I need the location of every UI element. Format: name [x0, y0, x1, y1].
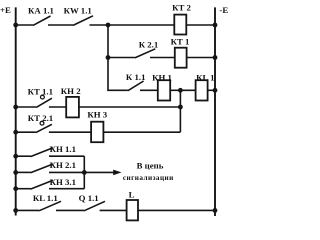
junction dot row6 left rail: [13, 154, 18, 159]
left rail +E: [15, 7, 17, 215]
wire row6 to signal bus: [49, 155, 84, 157]
wire row1 KT2 coil to right rail: [186, 24, 215, 26]
wire right bus vertical: [179, 90, 181, 132]
svg-text:К 1.1: К 1.1: [126, 72, 146, 82]
svg-text:КТ 1: КТ 1: [171, 36, 190, 46]
svg-text:КН 3.1: КН 3.1: [50, 177, 76, 187]
svg-text:КТ 1.1: КТ 1.1: [28, 86, 53, 96]
wire row6 rail to KN1.1: [16, 155, 31, 157]
svg-text:КН 1.1: КН 1.1: [50, 144, 76, 154]
junction dot row1 left rail: [13, 23, 18, 28]
wire row3 KL1 to right rail: [208, 89, 215, 91]
junction dot row2 bus: [106, 55, 111, 60]
svg-text:сигнализации: сигнализации: [123, 174, 174, 182]
svg-text:КН 3: КН 3: [87, 109, 107, 119]
wire row7 rail to KN2.1: [16, 171, 31, 173]
contact KN2.1 blade: [31, 164, 54, 173]
signal arrow head: [113, 170, 121, 176]
junction dot row7 left rail: [13, 170, 18, 175]
wire row9 rail to KL1.1: [16, 209, 39, 211]
junction dot signal bus: [82, 170, 87, 175]
svg-text:К 2.1: К 2.1: [139, 40, 159, 50]
wire row5 to KN3 box: [49, 131, 91, 133]
junction dot row1 right rail: [213, 23, 218, 28]
wire row5 rail to KT2.1: [16, 131, 36, 133]
right rail -E: [214, 7, 216, 216]
relay coil KT2: [174, 15, 186, 35]
wire row4 to KN2 box: [49, 106, 66, 108]
junction dot row9 right rail: [213, 208, 218, 213]
wire row9 between KL1.1 and Q1.1: [56, 209, 84, 211]
relay coil KT1: [175, 48, 187, 68]
svg-text:КН 2.1: КН 2.1: [50, 160, 76, 170]
wire row4 rail to KT1.1: [16, 106, 37, 108]
wire row2 to KT1 coil: [150, 57, 175, 59]
relay coil KN3: [91, 122, 103, 143]
wire row7 to signal bus: [49, 171, 84, 173]
contact KN1.1 blade: [31, 148, 54, 157]
wire signal bus vertical: [83, 156, 85, 189]
contact KT2.1 blade: [36, 124, 52, 132]
contact KN3.1 blade: [31, 180, 54, 189]
svg-text:КН 1: КН 1: [152, 72, 172, 82]
lamp L: [127, 200, 138, 220]
svg-text:КL 1: КL 1: [196, 72, 214, 82]
svg-text:-Е: -Е: [219, 5, 228, 15]
svg-text:КТ 2: КТ 2: [172, 2, 191, 12]
junction dot row5 left rail: [13, 130, 18, 135]
relay coil KN2: [66, 97, 79, 118]
svg-text:КА 1.1: КА 1.1: [28, 6, 54, 16]
svg-text:L: L: [129, 189, 135, 199]
wire row8 to signal bus: [49, 188, 84, 190]
wire row5 KN3 to right bus: [103, 131, 180, 133]
relay coil KL1: [196, 80, 208, 100]
junction dot row9 left rail: [13, 208, 18, 213]
junction dot row2 right rail: [213, 55, 218, 60]
contact KW1.1 blade: [73, 16, 93, 26]
wire signal arrow line: [84, 171, 114, 173]
svg-text:КН 2: КН 2: [61, 86, 81, 96]
contact KA1.1 blade: [33, 16, 51, 25]
contact Q1.1 blade: [84, 201, 105, 211]
wire row9 lamp L to right rail: [138, 209, 215, 211]
wire row1 between KA1.1 and KW1.1: [48, 24, 73, 26]
wire row8 rail to KN3.1: [16, 188, 31, 190]
svg-text:КW 1.1: КW 1.1: [64, 6, 92, 16]
svg-text:В цепь: В цепь: [137, 161, 164, 171]
contact KL1.1 blade: [39, 201, 61, 211]
svg-text:Q 1.1: Q 1.1: [79, 193, 99, 203]
wire row1 left segment: [16, 24, 33, 26]
junction dot row8 left rail: [13, 186, 18, 191]
svg-text:КТ 2.1: КТ 2.1: [28, 113, 53, 123]
svg-text:КL 1.1: КL 1.1: [33, 193, 58, 203]
wire row3 KN1 to KL1: [170, 89, 195, 91]
wire middle bus vertical: [108, 25, 128, 90]
contact K2.1 blade: [135, 49, 156, 58]
contact KT1.1 blade: [36, 98, 52, 107]
wire row2 bus to K2.1: [108, 57, 135, 59]
junction dot row3 right rail: [213, 88, 218, 93]
junction dot row1 middle bus: [106, 23, 111, 28]
wire row3 to KN1 box: [140, 89, 158, 91]
svg-text:+Е: +Е: [0, 5, 11, 15]
wire row2 KT1 coil to right rail: [187, 57, 215, 59]
junction dot row4 right bus: [178, 105, 183, 110]
contact KT2.1 time circle: [40, 121, 44, 125]
relay coil KN1: [158, 80, 170, 100]
contact K1.1 blade: [128, 81, 144, 91]
wire row4 KN2 to bus junction: [79, 106, 180, 108]
contact KT1.1 time circle: [41, 95, 45, 99]
junction dot row3 between KN1 KL1: [178, 88, 183, 93]
junction dot row4 left rail: [13, 105, 18, 110]
wire row1 to KT2 coil: [90, 24, 175, 26]
wire row9 to lamp L: [100, 209, 127, 211]
